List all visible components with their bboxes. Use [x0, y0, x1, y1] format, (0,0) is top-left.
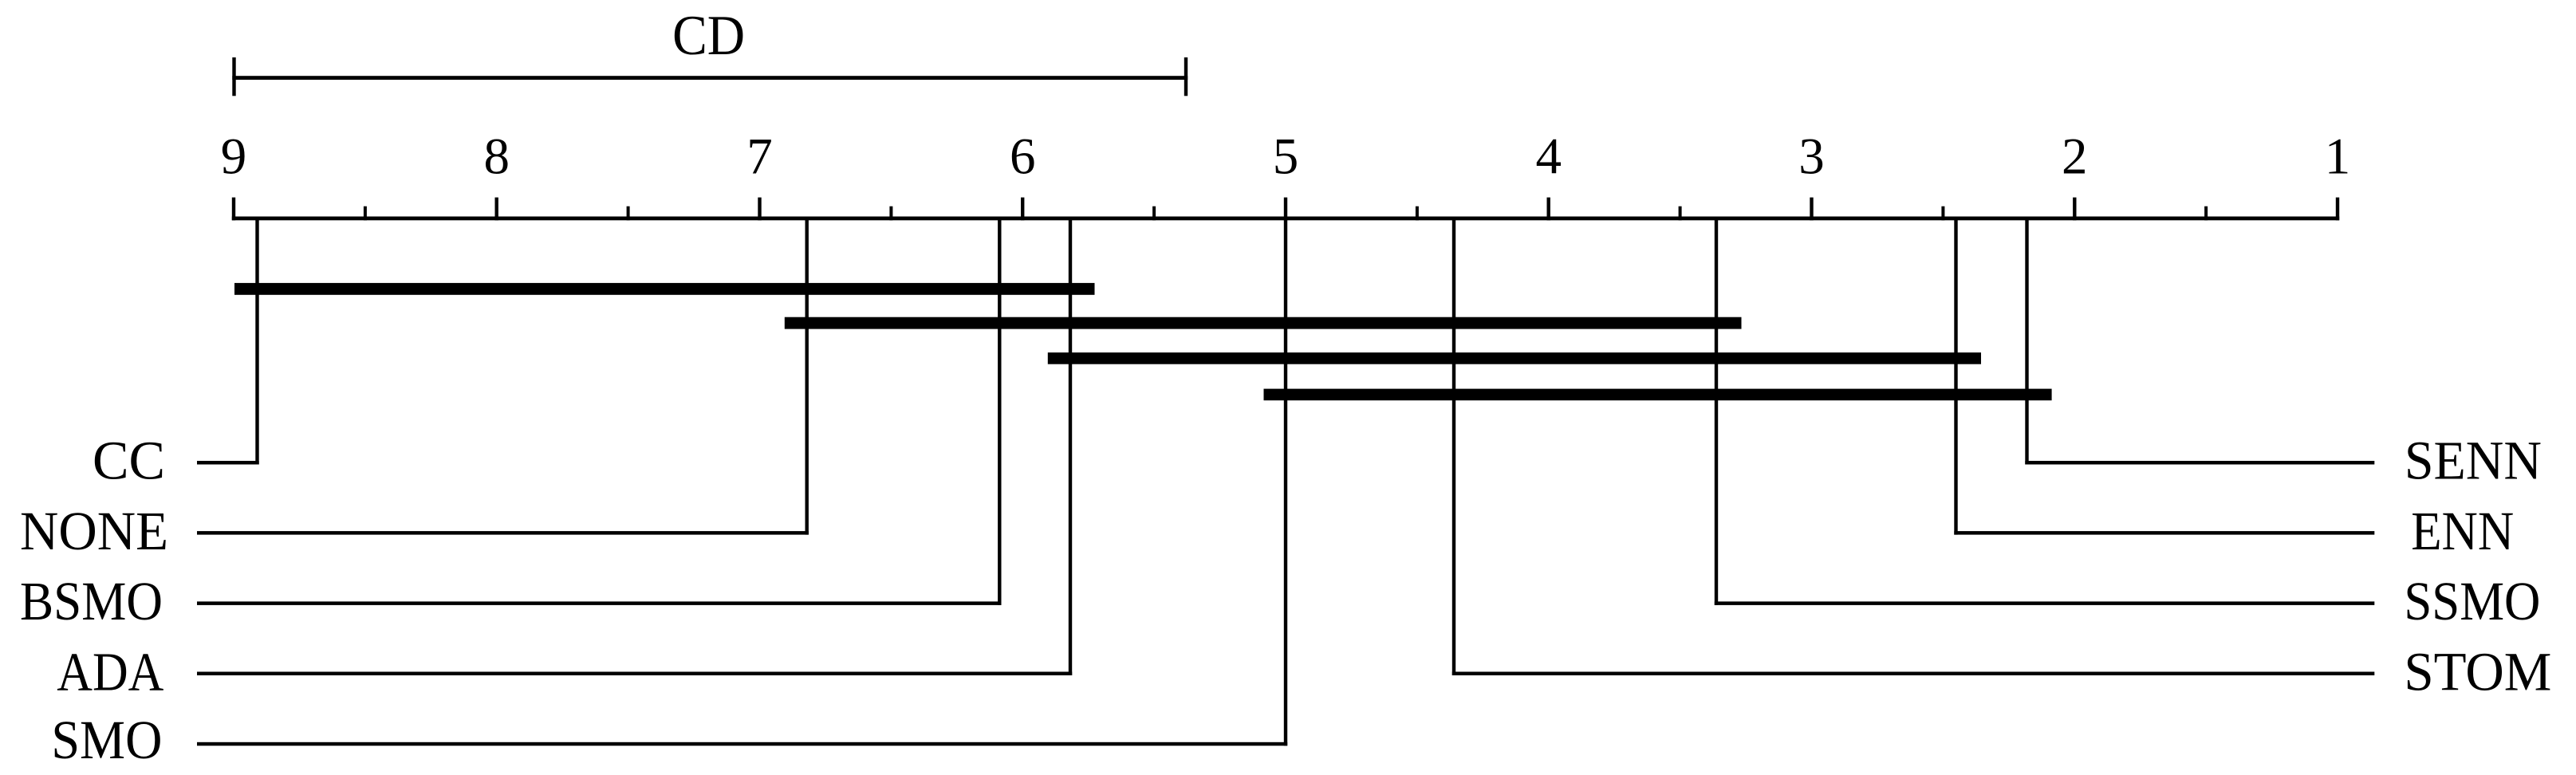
clique bar 1	[234, 283, 1095, 295]
STOM vertical	[1452, 217, 1455, 676]
svg-text:SSMO: SSMO	[2404, 571, 2540, 631]
svg-text:3: 3	[1798, 128, 1825, 186]
CC label line	[197, 461, 259, 465]
axis major tick 8	[495, 198, 498, 221]
axis line	[232, 217, 2339, 221]
axis major tick 9	[232, 198, 235, 221]
svg-text:ADA: ADA	[57, 641, 163, 702]
svg-text:NONE: NONE	[20, 501, 168, 561]
svg-text:SMO: SMO	[51, 710, 162, 770]
ENN vertical	[1954, 217, 1957, 535]
axis minor tick 6.5	[889, 207, 892, 221]
CD bracket left tick	[232, 57, 235, 96]
svg-text:CC: CC	[93, 431, 165, 491]
CD bracket right tick	[1184, 57, 1188, 96]
svg-text:1: 1	[2325, 128, 2351, 186]
clique bar 2	[785, 317, 1742, 329]
SENN label line	[2025, 461, 2374, 465]
axis minor tick 1.5	[2204, 207, 2208, 221]
SMO label line	[197, 742, 1287, 746]
svg-text:5: 5	[1273, 128, 1299, 186]
axis minor tick 3.5	[1679, 207, 1682, 221]
CC vertical	[255, 217, 258, 465]
axis minor tick 4.5	[1416, 207, 1419, 221]
axis major tick 7	[758, 198, 761, 221]
axis major tick 1	[2336, 198, 2339, 221]
SSMO vertical	[1715, 217, 1718, 605]
ADA vertical	[1069, 217, 1072, 676]
svg-text:SENN: SENN	[2405, 431, 2542, 491]
clique bar 3	[1048, 352, 1981, 364]
axis major tick 4	[1547, 198, 1550, 221]
axis minor tick 8.5	[364, 207, 367, 221]
NONE vertical	[805, 217, 809, 535]
ENN label line	[1954, 531, 2374, 535]
svg-text:STOM: STOM	[2404, 641, 2551, 702]
BSMO vertical	[998, 217, 1001, 605]
axis major tick 3	[1810, 198, 1813, 221]
svg-text:2: 2	[2062, 128, 2088, 186]
svg-text:9: 9	[221, 128, 247, 186]
svg-text:8: 8	[484, 128, 510, 186]
SMO vertical	[1284, 217, 1287, 746]
axis minor tick 7.5	[627, 207, 630, 221]
svg-text:7: 7	[746, 128, 773, 186]
svg-text:BSMO: BSMO	[20, 571, 163, 631]
BSMO label line	[197, 601, 1002, 605]
ADA label line	[197, 672, 1072, 676]
svg-text:6: 6	[1010, 128, 1036, 186]
svg-text:CD: CD	[672, 5, 745, 67]
SSMO label line	[1715, 601, 2375, 605]
axis major tick 5	[1284, 198, 1287, 221]
axis minor tick 5.5	[1152, 207, 1156, 221]
SENN vertical	[2025, 217, 2028, 465]
clique bar 4	[1264, 389, 2052, 401]
NONE label line	[197, 531, 809, 535]
axis major tick 2	[2073, 198, 2076, 221]
svg-text:4: 4	[1536, 128, 1562, 186]
STOM label line	[1452, 672, 2375, 676]
axis major tick 6	[1021, 198, 1024, 221]
axis minor tick 2.5	[1941, 207, 1944, 221]
svg-text:ENN: ENN	[2411, 501, 2514, 561]
CD bracket line	[232, 76, 1188, 80]
